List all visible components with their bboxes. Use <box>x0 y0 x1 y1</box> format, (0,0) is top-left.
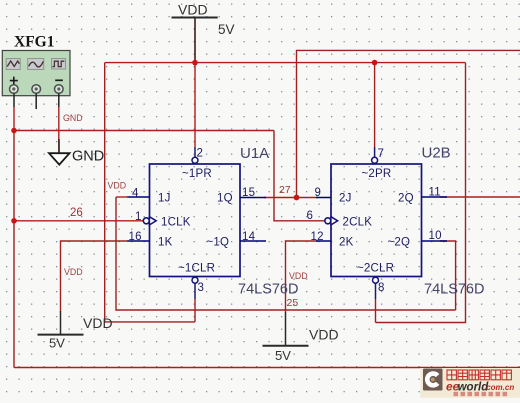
svg-text:U1A: U1A <box>240 145 269 162</box>
svg-text:74LS76D: 74LS76D <box>238 282 298 298</box>
pin 3 bubble <box>192 277 198 283</box>
terminal minus <box>55 85 64 94</box>
svg-text:12: 12 <box>311 231 324 243</box>
wire: 2CLR pin drop <box>375 299 377 323</box>
wire: VDD symbol lead to rail <box>194 18 196 147</box>
svg-text:~1Q: ~1Q <box>207 237 230 249</box>
pin 16 stub <box>128 240 150 242</box>
svg-text:VDD: VDD <box>178 2 208 18</box>
svg-text:~2Q: ~2Q <box>388 237 411 249</box>
svg-text:1J: 1J <box>158 193 171 205</box>
svg-text:5V: 5V <box>275 348 291 363</box>
power VDD top symbol <box>172 2 235 38</box>
svg-text:.com.cn: .com.cn <box>484 383 514 392</box>
wire: 2K to middle VDD symbol <box>286 241 319 312</box>
pin 9 stub <box>316 197 331 199</box>
wire: clock net bottom rail <box>14 367 520 369</box>
watermark eeworld logo <box>421 368 520 398</box>
junction VDD/1PR <box>192 60 198 66</box>
svg-text:GND: GND <box>63 113 83 123</box>
svg-text:~2PR: ~2PR <box>362 168 392 180</box>
pin 14 stub <box>240 240 266 242</box>
pin 8 bubble <box>373 277 379 283</box>
wire: 1K to left VDD symbol <box>61 241 129 311</box>
svg-text:~2CLR: ~2CLR <box>357 263 394 275</box>
svg-text:2J: 2J <box>339 193 352 205</box>
power VDD bottom-left symbol <box>38 311 113 351</box>
svg-text:5V: 5V <box>218 22 235 37</box>
svg-text:6: 6 <box>307 210 314 222</box>
svg-text:1CLK: 1CLK <box>161 217 191 229</box>
svg-text:2Q: 2Q <box>398 193 414 205</box>
svg-text:10: 10 <box>429 230 442 242</box>
junction clock split <box>11 218 17 224</box>
minus lead <box>58 93 60 107</box>
pin 12 stub <box>316 240 331 242</box>
svg-text:26: 26 <box>70 207 83 219</box>
sine wave icon <box>28 59 44 70</box>
wire: 1Q to 2J <box>264 197 318 199</box>
wire: 1J stub link <box>116 196 128 198</box>
svg-text:15: 15 <box>242 187 255 199</box>
wire: ~2Q down to rail <box>440 241 456 310</box>
minus sign <box>55 79 63 81</box>
pin 4 stub <box>128 196 150 198</box>
svg-text:1Q: 1Q <box>217 193 233 205</box>
svg-text:14: 14 <box>242 231 256 243</box>
svg-text:VDD: VDD <box>289 271 308 281</box>
svg-text:4: 4 <box>132 188 139 200</box>
svg-text:25: 25 <box>287 297 299 309</box>
svg-text:74LS76D: 74LS76D <box>424 282 484 298</box>
terminal common <box>32 85 41 94</box>
wire: clock net horizontal from XFG1 plus terminal <box>14 130 274 132</box>
pin 10 stub <box>422 240 448 242</box>
svg-text:U2B: U2B <box>422 145 451 162</box>
svg-text:1K: 1K <box>158 237 173 249</box>
junction net 27 <box>294 195 300 201</box>
svg-text:9: 9 <box>315 187 322 199</box>
svg-text:~1CLR: ~1CLR <box>178 263 215 275</box>
pin 1 clock bubble and wedge <box>143 218 149 224</box>
svg-text:VDD: VDD <box>64 267 83 277</box>
svg-text:2K: 2K <box>339 237 354 249</box>
svg-text:11: 11 <box>429 187 441 199</box>
wire: VDD left drop to 1CLR <box>105 63 195 322</box>
wire: 2Q output to right edge <box>440 196 520 198</box>
wire: 2PR drop from rail <box>374 63 376 147</box>
wire: 1CLK branch <box>14 220 144 222</box>
wire: 1CLR pin drop <box>194 299 196 322</box>
wire: VDD right drop to 2CLR <box>376 63 466 323</box>
svg-text:~1PR: ~1PR <box>182 168 212 180</box>
junction 2PR <box>372 60 378 66</box>
svg-text:1: 1 <box>135 211 142 223</box>
triangle wave icon <box>6 59 20 70</box>
wire: 2CLK branch <box>274 131 325 221</box>
svg-text:27: 27 <box>279 184 291 196</box>
svg-text:VDD: VDD <box>309 327 339 343</box>
svg-text:16: 16 <box>129 231 142 243</box>
junction at XFG1 plus <box>11 128 17 134</box>
svg-text:5V: 5V <box>49 336 65 351</box>
function generator XFG1 <box>2 34 70 154</box>
plus sign <box>10 77 18 85</box>
common lead stub <box>35 93 37 109</box>
square wave icon <box>52 59 66 70</box>
power VDD bottom-middle symbol <box>263 312 339 363</box>
svg-text:XFG1: XFG1 <box>14 34 54 51</box>
pin 11 stub <box>422 196 448 198</box>
flip-flop U1A <box>128 157 267 283</box>
pin 6 clock bubble and wedge <box>325 218 331 224</box>
wire: VDD top rail <box>105 62 466 64</box>
svg-text:2: 2 <box>197 148 204 160</box>
flip-flop U2B <box>316 157 447 283</box>
plus lead <box>13 93 15 107</box>
pin 15 stub <box>240 197 266 199</box>
svg-text:VDD: VDD <box>83 315 113 331</box>
svg-text:2CLK: 2CLK <box>343 217 373 229</box>
svg-text:GND: GND <box>72 149 104 165</box>
pin 2 bubble <box>192 157 198 163</box>
svg-text:7: 7 <box>378 148 385 160</box>
svg-text:8: 8 <box>378 282 385 294</box>
ground symbol <box>49 149 104 165</box>
wire: net 25 feedback rail 1J to ~2Q <box>116 197 456 310</box>
wire: clock net left vertical <box>13 131 15 368</box>
wire: net 27 output rail to right edge <box>297 50 520 197</box>
pin 7 bubble <box>372 157 378 163</box>
svg-text:VDD: VDD <box>108 181 127 191</box>
svg-text:3: 3 <box>198 282 205 294</box>
terminal plus <box>10 85 19 94</box>
